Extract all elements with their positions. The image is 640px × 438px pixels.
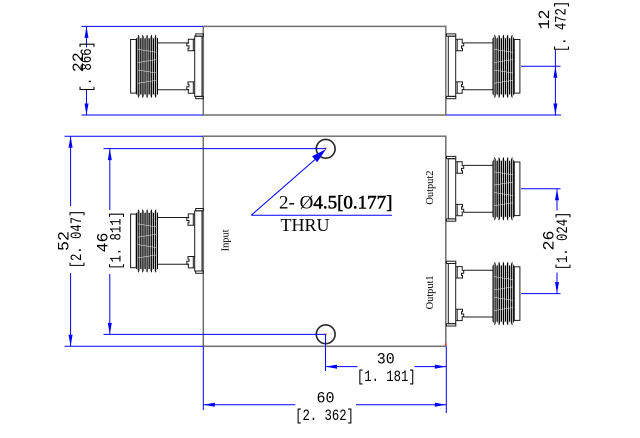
top hole center mark (red) xyxy=(325,148,327,150)
dimension 26 extension line at output2 axis xyxy=(521,188,561,190)
dimension 30 extension line from hole center xyxy=(325,334,327,371)
dimension 12 [.472] extension line at connector axis xyxy=(521,65,561,67)
dimension 26 extension line at output1 axis xyxy=(521,293,561,295)
svg-text:[1. 181]: [1. 181] xyxy=(357,368,416,386)
svg-text:[2. 362]: [2. 362] xyxy=(295,407,354,425)
svg-text:[1. 024]: [1. 024] xyxy=(554,212,572,271)
top mounting hole xyxy=(316,139,335,158)
svg-text:[2. 047]: [2. 047] xyxy=(68,210,86,269)
dimension 60 arrow left xyxy=(203,403,215,407)
dimension 26 arrow down xyxy=(555,282,559,294)
dimension 12 arrow down xyxy=(553,104,557,116)
leader line to hole xyxy=(251,153,322,215)
svg-text:THRU: THRU xyxy=(281,215,330,235)
dimension 52 arrow up xyxy=(69,136,73,148)
dimension 60 dimension line xyxy=(203,404,295,406)
svg-text:[. 472]: [. 472] xyxy=(552,1,570,52)
leader arrowhead xyxy=(312,149,326,162)
top view body xyxy=(203,26,445,115)
svg-text:12: 12 xyxy=(536,10,554,30)
top view input connector (left) xyxy=(131,34,204,99)
dimension 26 dimension line xyxy=(556,189,558,211)
bottom hole center mark (red) xyxy=(325,334,327,336)
dimension 30 arrow right xyxy=(435,365,447,369)
dimension 22 arrow down xyxy=(85,104,89,116)
dimension 52 extension line bottom xyxy=(65,345,204,347)
main view output2 connector xyxy=(446,156,519,221)
svg-text:60: 60 xyxy=(317,389,335,407)
top view output connector (right) xyxy=(446,34,519,99)
dimension 46 extension line bottom (to hole center) xyxy=(104,333,326,335)
svg-text:2- Ø4.5[0.177]: 2- Ø4.5[0.177] xyxy=(279,193,392,214)
dimension 22 [.866] extension line bottom xyxy=(82,114,204,116)
main view input connector xyxy=(131,209,204,274)
dimension 26 arrow up xyxy=(555,189,559,201)
dimension 46 arrow down xyxy=(108,323,112,335)
shared right extension line for 30/60 xyxy=(445,346,447,413)
leader underline xyxy=(251,214,392,216)
dimension 22 arrow up xyxy=(85,26,89,38)
dimension 46 dimension line xyxy=(109,149,111,210)
dimension 46 extension line top (to hole center) xyxy=(104,148,326,150)
dimension 30 arrow left xyxy=(326,365,338,369)
dimension 22 [.866] extension line top xyxy=(82,25,204,27)
svg-text:Input: Input xyxy=(221,229,232,251)
dimension 60 arrow right xyxy=(435,403,447,407)
dimension 60 left extension line xyxy=(202,346,204,410)
dimension 12 [.472] dimension line xyxy=(554,50,556,116)
dimension 52 dimension line xyxy=(70,136,72,206)
bottom mounting hole xyxy=(316,325,335,344)
dimension 52 arrow down xyxy=(69,335,73,347)
svg-text:[. 866]: [. 866] xyxy=(78,41,96,92)
body corner mark (red) xyxy=(445,344,447,346)
dimension 46 arrow up xyxy=(108,149,112,161)
svg-text:Output1: Output1 xyxy=(425,275,436,309)
dimension 52 extension line top xyxy=(65,135,204,137)
svg-text:Output2: Output2 xyxy=(425,171,436,205)
main view body xyxy=(203,136,445,346)
svg-text:30: 30 xyxy=(377,351,395,369)
dimension 22 [.866] dimension line xyxy=(86,26,88,47)
svg-text:[1. 811]: [1. 811] xyxy=(107,211,125,270)
dimension 12 [.472] extension line at body bottom xyxy=(446,114,561,116)
main view output1 connector xyxy=(446,261,519,326)
dimension 30 dimension line xyxy=(326,366,358,368)
dimension 12 arrow up xyxy=(553,66,557,78)
